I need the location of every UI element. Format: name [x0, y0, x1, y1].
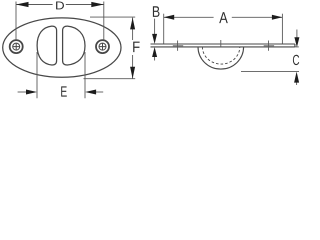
dimension A extension line right: [281, 14, 283, 44]
right screw cross: [99, 43, 105, 49]
bar bottom line: [151, 46, 295, 48]
right screw head outer circle: [96, 40, 109, 53]
label C: [293, 55, 299, 65]
dimension B line lower tail: [154, 57, 156, 61]
bar right end cap: [294, 44, 296, 47]
dimension B line upper: [154, 19, 156, 35]
dimension D extension line left: [15, 2, 17, 40]
cup inner hidden arc (dashed): [202, 47, 239, 64]
screw centerline cross dash right: [264, 45, 274, 47]
arrowhead C top (pointing down): [294, 37, 299, 47]
oval plate outline: [3, 18, 121, 77]
arrowhead B top (pointing down): [152, 34, 157, 44]
left screw head outer circle: [10, 40, 23, 53]
dimension A line right segment: [232, 16, 283, 18]
dimension F line upper segment: [132, 18, 134, 40]
cup outer arc: [198, 47, 244, 69]
arrowhead A right: [272, 15, 283, 20]
label E: [61, 86, 67, 96]
arrowhead C bottom (pointing up): [294, 72, 299, 83]
dimension A extension line left: [163, 14, 165, 44]
cup centerline tick: [220, 40, 222, 47]
bar (plate edge view) top line: [151, 43, 295, 45]
screw centerline cross dash left: [173, 45, 183, 47]
recess left lobe: [37, 26, 57, 65]
dimension D line right segment: [66, 4, 104, 6]
screw centerline tick left: [177, 41, 179, 51]
bar bottom extension for C: [295, 46, 299, 48]
dimension D line left segment: [16, 4, 53, 6]
arrowhead E right (outside, pointing left): [85, 90, 96, 95]
dimension C line lower tail: [296, 82, 298, 85]
dimension F extension line bottom: [84, 78, 136, 80]
arrowhead F bottom: [130, 67, 135, 79]
right screw inner circle: [99, 43, 106, 50]
cup bottom extension line for C: [241, 71, 299, 73]
arrowhead B bottom (pointing up): [152, 47, 157, 57]
left screw inner circle: [13, 43, 20, 50]
recess right lobe: [63, 26, 85, 65]
label F: [133, 42, 139, 53]
dimension F line lower segment: [132, 55, 134, 79]
screw centerline tick right: [268, 41, 270, 51]
dimension E tail line left: [18, 91, 27, 93]
arrowhead D left: [16, 2, 29, 7]
label B: [153, 6, 160, 17]
dimension F extension line top: [90, 16, 135, 18]
side view: [151, 44, 295, 69]
dimension E extension line left: [36, 52, 38, 98]
dimension E extension line right: [84, 52, 86, 98]
arrowhead D right: [91, 2, 104, 7]
dimension E tail line right: [95, 91, 103, 93]
left screw cross: [13, 43, 19, 49]
arrowhead E left (outside, pointing right): [26, 90, 37, 95]
arrowhead F top: [130, 18, 135, 30]
label D: [56, 2, 64, 10]
dimension A line left segment: [164, 16, 214, 18]
arrowhead A left: [164, 15, 175, 20]
dimension D extension line right: [103, 2, 105, 40]
label A: [219, 12, 228, 23]
dimension C line upper: [296, 30, 298, 39]
